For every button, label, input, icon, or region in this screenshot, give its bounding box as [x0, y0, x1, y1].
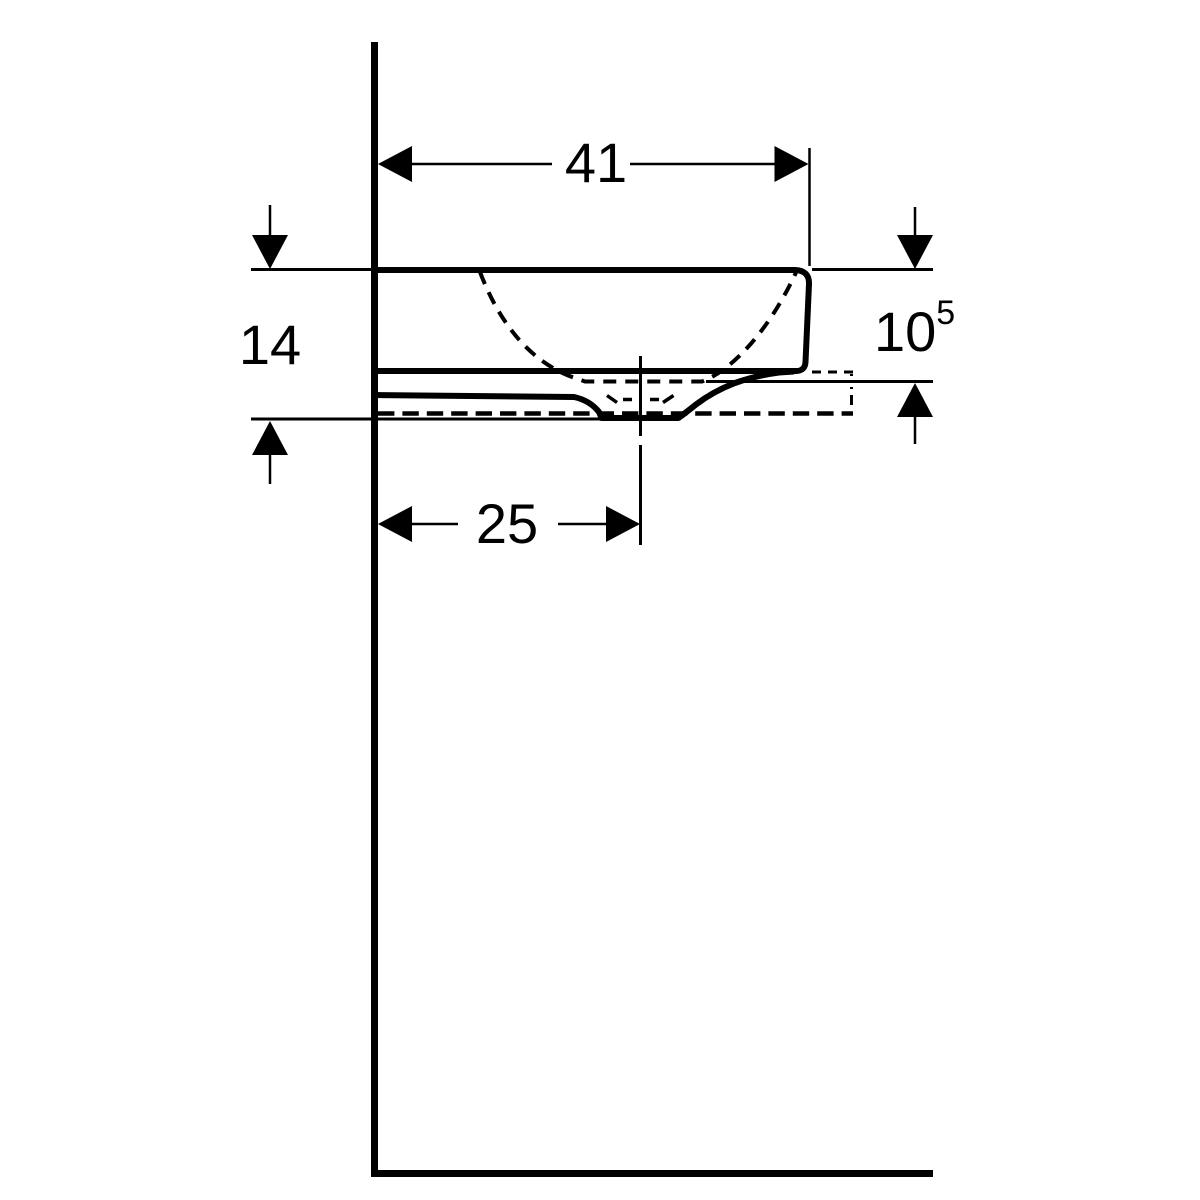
basin underside and drain trap [374, 372, 794, 419]
bowl hidden contour (dashed) [480, 272, 796, 382]
dimension 10.5 bottom arrow [914, 415, 917, 444]
wall [371, 42, 378, 1177]
basin outer outline (deck, right edge, shelf) [374, 270, 809, 371]
floor [371, 1170, 933, 1177]
svg-text:25: 25 [476, 492, 538, 555]
extension line top left [251, 268, 371, 271]
drain inner funnel (dashed) [607, 396, 674, 403]
extension line for 41 right [808, 148, 811, 266]
extension line mid right [706, 380, 933, 383]
svg-text:41: 41 [565, 131, 627, 194]
dimension 41 right arrow [775, 146, 809, 182]
hidden bottom edge (dashed) [378, 411, 853, 416]
dimension 25 left arrow [378, 506, 412, 542]
dimension 41 line [380, 163, 806, 166]
drain center line [639, 356, 642, 545]
dimension 10.5 top arrow [914, 207, 917, 237]
dimension 41 left arrow [378, 146, 412, 182]
overflow box top edge (dashed) [812, 371, 853, 374]
dimension 14 bottom arrow [269, 453, 272, 484]
overflow box right edge (dash-dot) [850, 374, 853, 412]
dimension 25 right arrow [606, 506, 640, 542]
dimension 14 top arrow [269, 205, 272, 237]
extension line bottom left [251, 418, 600, 421]
extension line top right [812, 268, 933, 271]
dimension 25 line [380, 523, 638, 526]
svg-text:14: 14 [239, 313, 301, 376]
